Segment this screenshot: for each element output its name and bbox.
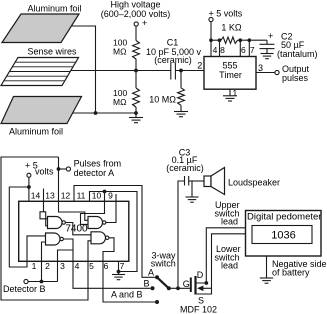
wire: output pin 3 bbox=[256, 72, 275, 74]
svg-text:Aluminum foil: Aluminum foil bbox=[9, 127, 63, 137]
wire bbox=[135, 107, 137, 118]
terminal: high voltage + bbox=[134, 18, 147, 28]
svg-text:+: + bbox=[268, 31, 273, 41]
node B (switch throw) bbox=[151, 286, 155, 290]
node A and B (switch throw) bbox=[155, 300, 159, 304]
wire: pin 3 stub joins gate C output bbox=[58, 250, 74, 282]
wire: pin 6 bbox=[239, 40, 241, 56]
junction: pin 9 tap bbox=[103, 190, 107, 194]
wire: pin 2 to gate C lower input and detector B bbox=[42, 242, 46, 282]
gate D (NAND) bbox=[91, 232, 109, 244]
wire: pole to gate G bbox=[169, 287, 191, 289]
svg-text:lead: lead bbox=[221, 217, 238, 227]
ground (10 Mohm) bbox=[174, 112, 188, 117]
transistor Q1 MDF 102 gate bar bbox=[190, 278, 192, 293]
terminal: output pulses bbox=[275, 70, 279, 74]
svg-text:7: 7 bbox=[120, 261, 125, 271]
svg-text:10: 10 bbox=[92, 191, 102, 201]
svg-text:2: 2 bbox=[45, 261, 50, 271]
ground (555 pin 1) bbox=[223, 96, 237, 101]
label: Upper switch lead bbox=[215, 200, 240, 227]
wire bbox=[28, 177, 30, 201]
wire: C3 riser bbox=[178, 181, 185, 288]
node: bottom aluminum foil plate bbox=[1, 97, 82, 124]
terminal: pulses from detector A bbox=[66, 167, 70, 171]
op-amp U1: 555 Timer box bbox=[204, 57, 256, 90]
svg-text:555: 555 bbox=[222, 60, 237, 70]
resistor R2 100 Mohm bbox=[133, 88, 140, 107]
svg-text:14: 14 bbox=[31, 191, 41, 201]
svg-text:4: 4 bbox=[75, 261, 80, 271]
svg-text:7: 7 bbox=[250, 45, 255, 55]
wire: pin 7 bbox=[248, 40, 250, 56]
gate A (NAND) bbox=[48, 217, 66, 229]
svg-text:7400: 7400 bbox=[65, 224, 88, 235]
substrate arrow bbox=[197, 286, 212, 292]
terminal: +5 volts bbox=[209, 17, 213, 21]
svg-text:6: 6 bbox=[104, 261, 109, 271]
ground (C2) bbox=[261, 54, 274, 59]
svg-text:1036: 1036 bbox=[271, 230, 295, 242]
wire: pin 13 to gate A inputs bbox=[40, 189, 48, 219]
svg-text:4: 4 bbox=[213, 45, 218, 55]
op-amp U2: 7400 IC box bbox=[19, 201, 129, 261]
capacitor C3 bbox=[185, 176, 189, 186]
switch lever bbox=[157, 277, 169, 288]
wire: top foil to HV bus bbox=[72, 26, 96, 113]
svg-text:(ceramic): (ceramic) bbox=[154, 55, 192, 65]
wire: pin 12 drop to gate B input bbox=[59, 157, 89, 220]
gate B (NAND) bbox=[88, 217, 106, 229]
resistor R3 10 Mohm bbox=[178, 88, 185, 106]
svg-text:Aluminum foil: Aluminum foil bbox=[27, 4, 81, 14]
wire: pin 8 bbox=[219, 40, 221, 56]
wire bbox=[180, 71, 182, 88]
terminal: Detector B bbox=[24, 279, 28, 283]
wire: C3 to loudspeaker bbox=[189, 180, 204, 182]
svg-text:switch: switch bbox=[151, 258, 176, 268]
junction: pulses tap bbox=[57, 167, 61, 171]
resistor R1 100 Mohm bbox=[133, 41, 140, 60]
wire bbox=[59, 168, 67, 170]
wire: source lead bbox=[196, 234, 246, 294]
svg-text:1 KΩ: 1 KΩ bbox=[221, 22, 242, 32]
gate C (NAND) bbox=[46, 233, 64, 245]
wire bbox=[191, 181, 193, 197]
node: sense wires plate bbox=[1, 58, 79, 86]
ground (HV divider) bbox=[129, 118, 143, 123]
svg-text:Sense wires: Sense wires bbox=[27, 47, 77, 57]
svg-text:(600–2,000 volts): (600–2,000 volts) bbox=[101, 9, 171, 19]
wire: pin 8 tick bbox=[115, 194, 117, 201]
wire bbox=[210, 22, 212, 41]
junction bbox=[27, 185, 31, 189]
svg-text:8: 8 bbox=[220, 45, 225, 55]
junction bbox=[117, 270, 121, 274]
terminal: +5 volts bbox=[27, 173, 31, 177]
svg-text:Loudspeaker: Loudspeaker bbox=[228, 177, 280, 187]
svg-text:(ceramic): (ceramic) bbox=[166, 163, 204, 173]
svg-text:MΩ: MΩ bbox=[113, 97, 126, 107]
svg-text:B: B bbox=[143, 279, 149, 289]
svg-text:+: + bbox=[142, 18, 147, 28]
pin labels bottom 1-7 bbox=[32, 261, 125, 271]
svg-text:5: 5 bbox=[89, 261, 94, 271]
svg-text:MΩ: MΩ bbox=[113, 47, 126, 57]
svg-text:10 MΩ: 10 MΩ bbox=[149, 95, 176, 105]
svg-text:13: 13 bbox=[45, 191, 55, 201]
wire: pin 9 drop to gate B lower input bbox=[81, 192, 105, 225]
wire: pin 4 bbox=[210, 40, 212, 56]
svg-text:+ 5 volts: + 5 volts bbox=[209, 8, 243, 18]
svg-text:volts: volts bbox=[35, 167, 54, 177]
svg-text:(tantalum): (tantalum) bbox=[277, 49, 318, 59]
wire: gate C output to pin 4 and B throw bbox=[63, 239, 150, 288]
svg-text:Detector B: Detector B bbox=[3, 284, 46, 294]
wire: pin 1 to ground bbox=[229, 89, 231, 96]
junction: foil wires bbox=[94, 111, 98, 115]
ground (7400 pin 7) bbox=[112, 275, 125, 280]
svg-text:G: G bbox=[183, 279, 190, 289]
wire: detector B to pins 2,3 bbox=[28, 281, 57, 283]
pin labels top 14 13 12 11 10 9 bbox=[31, 191, 113, 201]
capacitor C1 bbox=[171, 63, 176, 80]
svg-text:1: 1 bbox=[32, 261, 37, 271]
label: Lower switch lead bbox=[215, 244, 241, 271]
capacitor C2 (tantalum) bbox=[260, 31, 275, 54]
junction bbox=[40, 280, 44, 284]
svg-text:3: 3 bbox=[60, 261, 65, 271]
digital pedometer box bbox=[246, 211, 322, 257]
svg-text:2: 2 bbox=[197, 61, 202, 71]
loudspeaker icon bbox=[204, 168, 225, 195]
svg-text:D: D bbox=[197, 270, 204, 280]
wire: drain lead bbox=[196, 228, 246, 283]
switch pole junction bbox=[167, 286, 171, 290]
svg-text:of battery: of battery bbox=[272, 267, 310, 277]
resistor 1 Kohm bbox=[221, 37, 238, 43]
ground (speaker) bbox=[186, 197, 199, 202]
svg-text:A and B: A and B bbox=[111, 289, 143, 299]
wire: battery negative bbox=[266, 256, 268, 278]
wire: C1 to 555 pin 2 bbox=[175, 70, 204, 72]
svg-text:C1: C1 bbox=[167, 38, 179, 48]
svg-text:9: 9 bbox=[108, 191, 113, 201]
junction pins 4,8,6,7 bbox=[209, 38, 213, 42]
ground (battery negative) bbox=[260, 278, 273, 283]
wire: +5 loop to pin 1 and gate C input bbox=[9, 187, 45, 267]
wire: gate A output to gate D upper input bbox=[65, 223, 91, 235]
transistor Q1 channel bar bbox=[194, 276, 196, 295]
svg-text:detector A: detector A bbox=[74, 168, 115, 178]
wire: bottom foil to ground bus bbox=[73, 112, 136, 114]
svg-text:Timer: Timer bbox=[219, 70, 242, 80]
junction bbox=[134, 111, 138, 115]
svg-text:pulses: pulses bbox=[282, 73, 309, 83]
svg-text:MDF 102: MDF 102 bbox=[180, 304, 217, 314]
svg-text:11: 11 bbox=[77, 191, 86, 201]
svg-text:3: 3 bbox=[258, 63, 263, 73]
wire: pin 7 to ground bbox=[118, 261, 120, 274]
node A (switch throw) bbox=[155, 275, 159, 279]
svg-text:12: 12 bbox=[61, 191, 71, 201]
junction: sense node bbox=[134, 69, 138, 73]
svg-text:6: 6 bbox=[241, 45, 246, 55]
wire: pin 11 loop to switch A bbox=[74, 186, 155, 278]
wire bbox=[135, 59, 137, 88]
svg-text:1: 1 bbox=[233, 88, 238, 98]
junction: C3 tap bbox=[176, 286, 180, 290]
wire: pin 10 loop to pin 7 ground bbox=[90, 192, 138, 272]
wire: gate D output to pin 6 and A-and-B throw bbox=[103, 238, 155, 302]
wire: gate B output to pin 8 bbox=[106, 201, 116, 222]
wire: outer loop pin12 net (pulses A / pin 5) bbox=[1, 157, 91, 300]
wire bbox=[135, 26, 137, 40]
wire: sense wires to C1 bbox=[71, 70, 171, 72]
junction bbox=[179, 69, 183, 73]
svg-text:lead: lead bbox=[221, 261, 238, 271]
wire: supply bus bbox=[211, 39, 221, 41]
wire bbox=[180, 105, 182, 111]
node: top aluminum foil plate bbox=[2, 14, 79, 43]
junction: drain bbox=[204, 281, 208, 285]
svg-text:Digital pedometer: Digital pedometer bbox=[247, 211, 321, 222]
svg-text:A: A bbox=[148, 268, 154, 278]
